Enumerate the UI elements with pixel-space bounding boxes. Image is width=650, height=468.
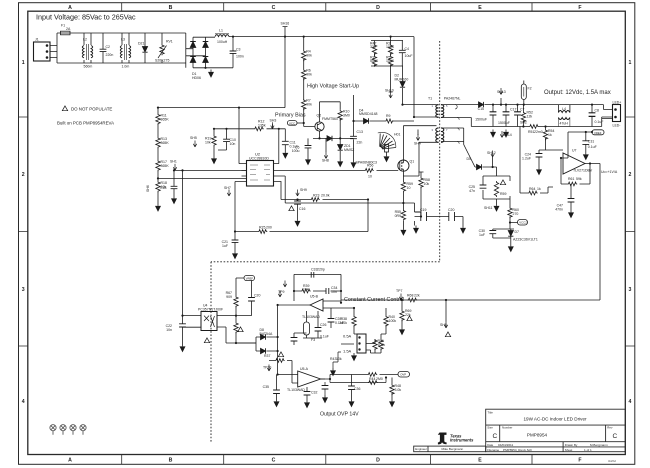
svg-text:Output OVP 14V: Output OVP 14V — [320, 412, 359, 418]
svg-text:TL103WAD: TL103WAD — [287, 388, 305, 392]
svg-text:A: A — [68, 5, 72, 11]
svg-text:12k: 12k — [527, 115, 533, 119]
svg-text:22k: 22k — [405, 313, 411, 317]
svg-text:D: D — [376, 5, 380, 11]
svg-text:865K: 865K — [161, 164, 170, 168]
svg-text:F2: F2 — [528, 87, 532, 91]
svg-text:C17: C17 — [510, 108, 516, 112]
svg-text:FMMT560: FMMT560 — [322, 117, 338, 121]
svg-text:1uF: 1uF — [222, 244, 228, 248]
svg-text:200: 200 — [266, 226, 272, 230]
svg-text:865K: 865K — [161, 118, 170, 122]
svg-text:R59: R59 — [500, 192, 506, 196]
svg-text:C15: C15 — [478, 107, 484, 111]
svg-text:TL103WAD: TL103WAD — [302, 315, 320, 319]
svg-text:L1: L1 — [219, 29, 223, 33]
svg-text:10k: 10k — [303, 288, 309, 292]
svg-text:L3: L3 — [121, 38, 125, 42]
svg-text:135k: 135k — [258, 123, 266, 127]
svg-text:1: 1 — [629, 60, 632, 66]
svg-text:VREF: VREF — [246, 277, 254, 281]
svg-text:2: 2 — [22, 172, 25, 178]
svg-text:PA2467NL: PA2467NL — [444, 97, 461, 101]
svg-text:Drawn By: Drawn By — [565, 443, 578, 447]
svg-text:SH8: SH8 — [440, 323, 447, 327]
svg-text:47uH: 47uH — [560, 122, 569, 126]
svg-text:470n: 470n — [555, 208, 563, 212]
svg-text:SH12: SH12 — [487, 151, 496, 155]
svg-text:R37: R37 — [264, 354, 270, 358]
svg-text:OVP: OVP — [400, 373, 406, 377]
svg-text:R25: R25 — [259, 226, 265, 230]
svg-text:L2: L2 — [83, 38, 87, 42]
svg-text:3.0k: 3.0k — [395, 388, 402, 392]
svg-text:SH13: SH13 — [497, 90, 506, 94]
svg-text:SH5: SH5 — [190, 136, 197, 140]
svg-text:J1: J1 — [35, 38, 39, 42]
svg-text:1: 1 — [22, 60, 25, 66]
svg-text:0.1uF: 0.1uF — [588, 145, 597, 149]
svg-text:100K: 100K — [386, 59, 395, 63]
svg-text:MMSZ: MMSZ — [344, 148, 355, 152]
svg-text:10uF: 10uF — [405, 54, 413, 58]
svg-text:TP7: TP7 — [396, 289, 402, 293]
svg-text:C16: C16 — [299, 207, 305, 211]
svg-text:Instruments: Instruments — [450, 438, 474, 443]
svg-text:Uo=+1V/A: Uo=+1V/A — [601, 170, 618, 174]
svg-text:F: F — [578, 5, 581, 11]
svg-text:C13: C13 — [357, 130, 363, 134]
svg-text:PMP8954: PMP8954 — [527, 433, 548, 438]
svg-text:C: C — [613, 433, 618, 440]
svg-text:20.0k: 20.0k — [321, 194, 330, 198]
svg-text:TLV271DBV: TLV271DBV — [573, 169, 593, 173]
svg-text:U5-A: U5-A — [300, 367, 309, 371]
svg-text:47n: 47n — [469, 189, 475, 193]
svg-text:Q2: Q2 — [317, 114, 322, 118]
svg-text:R68: R68 — [407, 294, 413, 298]
svg-text:100k: 100k — [378, 343, 386, 347]
svg-text:3M0: 3M0 — [343, 114, 350, 118]
svg-text:B: B — [169, 458, 173, 464]
svg-text:LED+: LED+ — [613, 100, 622, 104]
svg-text:10k: 10k — [424, 182, 430, 186]
svg-text:C20: C20 — [254, 294, 260, 298]
svg-text:909: 909 — [226, 295, 232, 299]
svg-text:100uH: 100uH — [217, 40, 228, 44]
svg-text:SH9: SH9 — [300, 188, 307, 192]
svg-text:10: 10 — [407, 186, 411, 190]
svg-text:C35: C35 — [263, 385, 269, 389]
svg-text:PMP8954_RevA.Sch: PMP8954_RevA.Sch — [503, 448, 532, 452]
svg-text:VCC2: VCC2 — [519, 221, 527, 225]
svg-text:0.1uF: 0.1uF — [320, 335, 329, 339]
svg-text:Sheet: Sheet — [565, 448, 573, 452]
svg-text:3: 3 — [629, 287, 632, 293]
svg-text:22k: 22k — [414, 294, 420, 298]
svg-text:TP9: TP9 — [278, 290, 284, 294]
svg-text:Engineer: Engineer — [415, 447, 427, 451]
svg-text:1uF: 1uF — [479, 233, 485, 237]
svg-text:R9: R9 — [386, 114, 391, 118]
svg-text:22n: 22n — [357, 141, 363, 145]
svg-text:C3: C3 — [236, 48, 241, 52]
svg-text:AZ23C36V1LT1: AZ23C36V1LT1 — [513, 238, 538, 242]
svg-text:10n: 10n — [166, 328, 172, 332]
svg-text:U7: U7 — [572, 149, 577, 153]
svg-text:270: 270 — [513, 212, 519, 216]
svg-text:2: 2 — [629, 172, 632, 178]
svg-text:500K: 500K — [370, 59, 379, 63]
svg-text:Rev: Rev — [607, 426, 613, 430]
svg-text:04/04/2011: 04/04/2011 — [498, 443, 514, 447]
svg-text:4: 4 — [22, 399, 25, 405]
svg-text:R44: R44 — [369, 377, 375, 381]
svg-text:100K: 100K — [386, 45, 395, 49]
svg-text:C19: C19 — [420, 208, 426, 212]
svg-text:C8: C8 — [595, 109, 600, 113]
svg-text:1.5A: 1.5A — [343, 349, 352, 354]
svg-text:R23: R23 — [313, 194, 319, 198]
svg-text:1k: 1k — [537, 187, 541, 191]
svg-text:0.1uF: 0.1uF — [595, 120, 604, 124]
svg-text:RV1: RV1 — [166, 40, 173, 44]
svg-text:3: 3 — [22, 287, 25, 293]
svg-text:865K: 865K — [161, 141, 170, 145]
svg-text:SH3: SH3 — [270, 119, 277, 123]
svg-text:D7: D7 — [515, 230, 520, 234]
svg-text:Output: 12Vdc, 1.5A max: Output: 12Vdc, 1.5A max — [544, 90, 611, 96]
svg-text:D21: D21 — [138, 42, 144, 46]
svg-text:2A: 2A — [66, 27, 71, 31]
svg-text:10: 10 — [368, 175, 372, 179]
svg-text:B: B — [169, 5, 173, 11]
svg-text:C7: C7 — [520, 108, 525, 112]
svg-text:C36: C36 — [354, 387, 360, 391]
svg-text:22m0: 22m0 — [534, 130, 543, 134]
svg-text:560m: 560m — [84, 65, 93, 69]
svg-text:Filename: Filename — [487, 448, 499, 452]
svg-text:SPA06N80C3: SPA06N80C3 — [355, 161, 377, 165]
svg-text:High Voltage Start-Up: High Voltage Start-Up — [307, 84, 359, 90]
svg-text:F: F — [578, 458, 581, 464]
svg-text:1 of 1: 1 of 1 — [584, 448, 592, 452]
svg-text:0R9: 0R9 — [395, 214, 401, 218]
svg-text:Title: Title — [488, 411, 494, 415]
svg-text:F1: F1 — [61, 24, 65, 28]
svg-text:C26: C26 — [320, 323, 326, 327]
svg-text:1500uF: 1500uF — [498, 121, 510, 125]
svg-text:0.5A: 0.5A — [343, 334, 352, 339]
svg-text:100k: 100k — [389, 319, 397, 323]
svg-text:SH7: SH7 — [224, 186, 231, 190]
svg-text:10k: 10k — [336, 357, 342, 361]
svg-text:HD06: HD06 — [192, 76, 201, 80]
svg-text:220p: 220p — [317, 268, 325, 272]
svg-text:SH6: SH6 — [146, 185, 150, 192]
svg-text:D5: D5 — [467, 157, 472, 161]
svg-text:M.Bergmann: M.Bergmann — [590, 443, 608, 447]
svg-text:D: D — [376, 458, 380, 464]
svg-text:S20K275: S20K275 — [155, 59, 169, 63]
svg-text:19W AC-DC Indoor LED Driver: 19W AC-DC Indoor LED Driver — [523, 417, 587, 422]
svg-text:U5-B: U5-B — [310, 295, 319, 299]
svg-text:100n: 100n — [236, 55, 244, 59]
svg-text:Size: Size — [487, 426, 493, 430]
svg-text:LED-: LED- — [613, 124, 622, 128]
svg-text:0.1uF: 0.1uF — [290, 144, 299, 148]
svg-text:SH10: SH10 — [385, 89, 394, 93]
svg-text:C32: C32 — [311, 391, 317, 395]
svg-text:tbd/tbd: tbd/tbd — [608, 459, 616, 463]
svg-text:2M0: 2M0 — [376, 377, 383, 381]
svg-text:BAT54A: BAT54A — [260, 332, 273, 336]
svg-text:Number: Number — [502, 426, 512, 430]
svg-text:C18: C18 — [160, 186, 166, 190]
svg-text:E: E — [478, 5, 482, 11]
svg-text:DO NOT POPULATE: DO NOT POPULATE — [71, 107, 112, 112]
svg-text:10k: 10k — [205, 141, 211, 145]
svg-text:Primary Bias: Primary Bias — [275, 113, 306, 119]
svg-text:Built on PCB PMP8954REVA: Built on PCB PMP8954REVA — [57, 121, 114, 126]
svg-text:SH11: SH11 — [484, 206, 493, 210]
svg-text:C: C — [272, 458, 276, 464]
svg-text:C31: C31 — [588, 140, 594, 144]
svg-text:1k: 1k — [548, 133, 552, 137]
svg-text:MMSD4148: MMSD4148 — [359, 112, 378, 116]
svg-text:F3: F3 — [311, 338, 315, 342]
svg-text:VCC: VCC — [289, 121, 295, 125]
svg-text:H01: H01 — [394, 133, 400, 137]
svg-text:SH16: SH16 — [281, 22, 290, 26]
svg-text:A: A — [68, 458, 72, 464]
svg-text:59k: 59k — [576, 177, 582, 181]
svg-text:SH1: SH1 — [170, 160, 177, 164]
svg-text:90k: 90k — [306, 103, 312, 107]
svg-text:90k: 90k — [306, 54, 312, 58]
svg-text:C2: C2 — [106, 45, 111, 49]
svg-text:C20: C20 — [448, 208, 454, 212]
svg-text:220n: 220n — [106, 53, 114, 57]
svg-text:Mike Bergmann: Mike Bergmann — [442, 447, 464, 451]
svg-text:TP10: TP10 — [263, 366, 271, 370]
svg-text:90k: 90k — [306, 73, 312, 77]
svg-text:Q1: Q1 — [410, 160, 415, 164]
svg-text:1500uF: 1500uF — [475, 118, 487, 122]
svg-text:C4: C4 — [405, 47, 410, 51]
svg-text:MUR160: MUR160 — [395, 77, 409, 81]
svg-text:R61: R61 — [568, 177, 574, 181]
svg-text:Date: Date — [487, 443, 493, 447]
svg-text:1.2uF: 1.2uF — [522, 157, 531, 161]
svg-text:240k: 240k — [339, 321, 347, 325]
svg-text:L4: L4 — [562, 107, 566, 111]
svg-text:PC357N1TJ00F: PC357N1TJ00F — [198, 307, 223, 311]
svg-text:4: 4 — [629, 399, 632, 405]
svg-text:100u: 100u — [292, 149, 300, 153]
svg-text:T1: T1 — [428, 97, 432, 101]
svg-text:UCC28810D: UCC28810D — [249, 156, 269, 160]
svg-text:C: C — [272, 5, 276, 11]
svg-text:SH8: SH8 — [322, 159, 329, 163]
svg-text:33k: 33k — [370, 45, 376, 49]
svg-text:10n: 10n — [331, 290, 337, 294]
svg-text:SH14: SH14 — [503, 133, 512, 137]
svg-text:R64: R64 — [529, 187, 535, 191]
svg-text:C: C — [493, 433, 498, 440]
svg-text:SH2: SH2 — [520, 121, 527, 125]
svg-text:E: E — [478, 458, 482, 464]
svg-text:VREF: VREF — [594, 131, 602, 135]
svg-text:1.0m: 1.0m — [122, 65, 130, 69]
svg-text:Input Voltage: 85Vac to 265Vac: Input Voltage: 85Vac to 265Vac — [36, 13, 136, 22]
svg-text:10n: 10n — [230, 142, 236, 146]
